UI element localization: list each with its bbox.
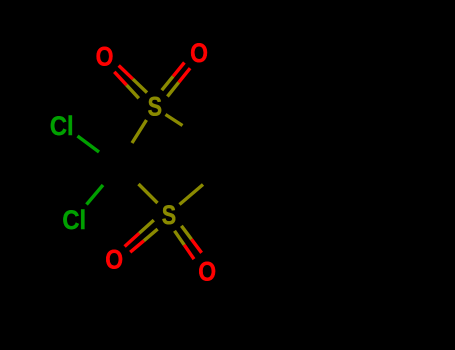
bond C-S1 (single, olive) xyxy=(132,120,147,143)
bond S1=O1 double, line 1 (red half + olive half) xyxy=(119,66,147,93)
bond S2=O3 double, line 1 (red half + olive half) xyxy=(125,220,154,246)
svg-text:Cl: Cl xyxy=(50,112,74,142)
svg-text:O: O xyxy=(105,245,123,275)
svg-text:O: O xyxy=(198,257,216,287)
bond S2=O3 double, line 2 (red half + olive half) xyxy=(130,229,157,252)
bond S1=O2 double, line 1 (olive half + red half) xyxy=(162,63,185,91)
bond S2=O4 double, line 2 (olive half + red half) xyxy=(181,226,201,253)
atom Cl2 label xyxy=(62,205,86,235)
atom O1 label xyxy=(96,42,114,72)
bond C-Cl2 (single, green) xyxy=(87,185,104,205)
atom O4 label xyxy=(198,257,216,287)
atom O2 label xyxy=(190,38,208,68)
svg-text:S: S xyxy=(162,201,176,231)
atom O3 label xyxy=(105,245,123,275)
atom Cl1 label xyxy=(50,112,74,142)
bond S1-CH3 (single, olive) xyxy=(166,115,183,126)
bond S2-CH3 (single, olive) xyxy=(180,185,204,205)
atom S2 label xyxy=(162,201,176,231)
svg-text:Cl: Cl xyxy=(62,205,86,235)
svg-text:O: O xyxy=(190,38,208,68)
bond S2=O4 double, line 1 (olive half + red half) xyxy=(175,231,195,259)
svg-text:O: O xyxy=(96,42,114,72)
svg-text:S: S xyxy=(148,92,162,122)
bond S1=O2 double, line 2 (olive half + red half) xyxy=(167,68,190,96)
bond C-S2 (single, olive) xyxy=(139,184,158,203)
bond S1=O1 double, line 2 (red half + olive half) xyxy=(114,72,139,99)
bond C-Cl1 (single, green) xyxy=(78,136,100,152)
atom S1 label xyxy=(148,92,162,122)
